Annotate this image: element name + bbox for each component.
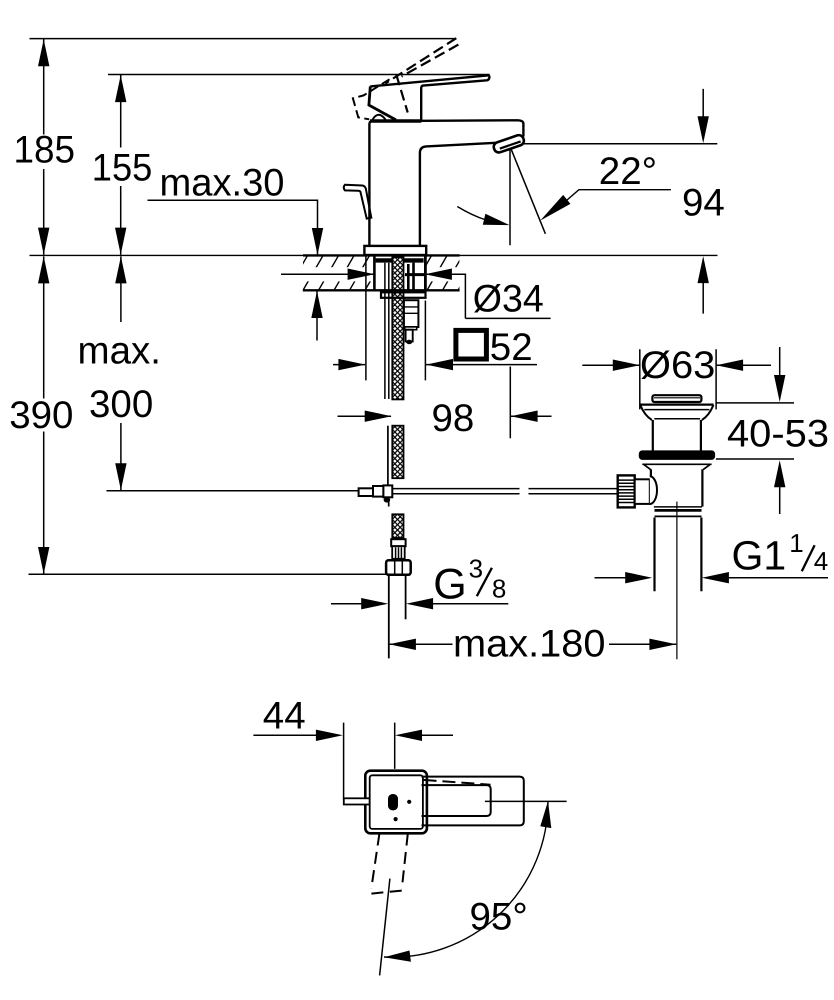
- dimension 40-53: [716, 347, 794, 514]
- dimension Ø34 leader: [281, 274, 551, 318]
- svg-text:40-53: 40-53: [727, 413, 829, 456]
- svg-text:G1: G1: [732, 533, 787, 579]
- plan center lines: [380, 879, 390, 976]
- handle pivot arc: [373, 115, 386, 120]
- shank walls: [373, 255, 376, 291]
- drain ball joint bump: [650, 476, 657, 504]
- water stream vertical line: [509, 149, 511, 245]
- plan inner body square: [370, 775, 423, 829]
- drain body walls: [651, 469, 703, 506]
- faucet body and spout outline: [369, 120, 523, 246]
- drain rod stem: [635, 479, 650, 504]
- drain center line: [676, 502, 678, 660]
- thick junction handle/body: [370, 119, 421, 122]
- 22 degree leader with arrow: [563, 190, 671, 204]
- mounting surface line: [30, 254, 718, 256]
- dimension Ø63: [582, 349, 771, 409]
- datum line max.300 hose level: [107, 490, 360, 492]
- datum line 390 bottom: [29, 573, 391, 575]
- dimension 98: [338, 367, 552, 439]
- lower hose to G3/8: [392, 514, 403, 538]
- mounting nut under counter: [381, 292, 426, 298]
- plan pop-up rod stub: [344, 798, 370, 804]
- shank top bar: [376, 258, 424, 262]
- drain slip nut: [654, 506, 702, 508]
- pop-up rod knob behind faucet: [344, 185, 372, 219]
- flexible hose braided upper: [392, 257, 403, 478]
- plan outer base square: [365, 771, 427, 834]
- svg-text:3: 3: [469, 553, 483, 583]
- svg-text:98: 98: [432, 397, 475, 440]
- dimension max.300: [115, 256, 126, 283]
- plan lever outline: [422, 777, 524, 826]
- svg-text:94: 94: [682, 182, 725, 225]
- stud fixing detail: [404, 300, 419, 327]
- dimension G3/8: [331, 603, 508, 605]
- threaded stud lines: [408, 263, 413, 292]
- horizontal pop-up rod: [392, 489, 618, 494]
- dimension G1 1/4: [595, 577, 829, 579]
- dimension 44: [253, 723, 453, 800]
- datum line 155: [108, 74, 490, 76]
- base plate: [364, 246, 426, 255]
- dimension 185: [43, 39, 45, 255]
- aerator outlet: [492, 134, 525, 154]
- svg-text:G: G: [433, 561, 466, 609]
- dimension max.180: [389, 643, 676, 645]
- drain neck: [653, 420, 701, 451]
- dimension 390: [44, 256, 121, 574]
- drain flange underside: [642, 464, 711, 469]
- countertop hatching right: [412, 255, 479, 290]
- svg-text:8: 8: [492, 573, 506, 603]
- svg-text:Ø63: Ø63: [640, 344, 716, 387]
- svg-text:300: 300: [89, 383, 153, 426]
- countertop hatching left: [288, 255, 386, 290]
- drain plug cap: [652, 395, 701, 402]
- water stream 22 degree line: [511, 149, 545, 234]
- svg-text:max.30: max.30: [160, 161, 285, 204]
- drain rod knurled knob: [618, 475, 635, 507]
- dimension 155: [120, 75, 122, 255]
- svg-text:max.: max.: [78, 330, 161, 373]
- dimension 94: [702, 89, 704, 314]
- rod junction blocks: [359, 488, 373, 496]
- svg-text:185: 185: [14, 128, 76, 171]
- plan small dots: [407, 800, 411, 804]
- countertop bottom line: [303, 289, 460, 291]
- plan lever dashed edge: [424, 780, 491, 785]
- white gap around diameter arrows: [281, 267, 374, 281]
- svg-text:44: 44: [263, 695, 306, 738]
- drain tailpipe: [655, 518, 702, 592]
- dimension 52: [333, 256, 537, 380]
- svg-text:max.180: max.180: [453, 623, 606, 666]
- swing arc with arrow: [457, 207, 486, 221]
- drain flange dome: [640, 404, 714, 406]
- drain O-ring: [639, 450, 715, 460]
- G3/8 pipe: [388, 575, 390, 659]
- plan cartridge hole: [388, 794, 398, 810]
- pull rod lines in shank: [385, 263, 389, 399]
- plan spout tube: [422, 785, 491, 816]
- svg-text:Ø34: Ø34: [473, 277, 544, 320]
- handle lever: [370, 75, 489, 120]
- svg-text:155: 155: [92, 147, 153, 190]
- leader max.30: [148, 200, 318, 340]
- handle head: [369, 86, 396, 120]
- svg-text:4: 4: [814, 546, 828, 576]
- svg-text:22°: 22°: [599, 150, 657, 193]
- plan swivel spout dashed position: [371, 834, 408, 894]
- 95 degree swivel arc: [384, 801, 548, 957]
- handle raised position dashed: [385, 38, 458, 112]
- svg-text:52: 52: [490, 326, 533, 369]
- datum line spout height 94: [524, 143, 718, 145]
- svg-text:1: 1: [789, 528, 803, 558]
- square symbol for 52: [456, 330, 487, 359]
- svg-text:390: 390: [9, 394, 73, 437]
- svg-text:95°: 95°: [470, 896, 528, 939]
- datum line 185 top: [30, 38, 456, 40]
